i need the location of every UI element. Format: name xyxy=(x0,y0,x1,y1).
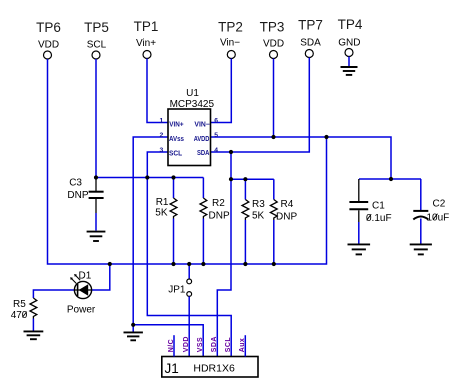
capacitor C3 xyxy=(67,178,103,231)
svg-text:DNP: DNP xyxy=(276,212,297,223)
svg-text:TP5: TP5 xyxy=(84,20,109,35)
wire SCL rail xyxy=(96,177,203,179)
node SCL rail / TP5 / C3 xyxy=(94,175,98,179)
svg-text:470: 470 xyxy=(11,310,28,321)
wire TP5/SCL down to SCL rail xyxy=(95,59,97,178)
svg-text:J1: J1 xyxy=(165,361,179,376)
svg-text:C1: C1 xyxy=(372,201,385,212)
svg-text:SCL: SCL xyxy=(169,151,183,158)
node VSS junction xyxy=(131,323,135,327)
node SDA rail / drop xyxy=(229,177,233,181)
svg-text:VDD: VDD xyxy=(38,40,59,51)
svg-text:R5: R5 xyxy=(13,299,26,310)
svg-text:HDR1X6: HDR1X6 xyxy=(193,363,235,375)
header J1 HDR1X6 xyxy=(162,357,258,378)
svg-text:VIN−: VIN− xyxy=(194,122,209,129)
svg-text:DNP: DNP xyxy=(209,211,230,222)
wire pin 2 AVss left and down to ground junction xyxy=(133,137,203,357)
test point TP2 xyxy=(218,20,243,59)
svg-text:TP7: TP7 xyxy=(298,18,323,33)
svg-text:TP1: TP1 xyxy=(134,19,159,34)
capacitor C1 xyxy=(349,179,391,244)
wire LED to R5 xyxy=(33,290,74,298)
svg-text:SDA: SDA xyxy=(211,336,218,352)
wire pin 4 SDA right to TP7 xyxy=(211,58,310,153)
svg-text:4: 4 xyxy=(214,147,218,154)
jumper JP1 xyxy=(168,264,191,357)
ground below C3 xyxy=(87,232,106,241)
node AVDD / TP3 xyxy=(271,135,275,139)
svg-text:VSS: VSS xyxy=(197,337,204,352)
node VDD rail / R4 xyxy=(272,262,276,266)
svg-text:R2: R2 xyxy=(212,198,225,209)
wire C1-C2 top rail xyxy=(359,178,421,180)
node AVDD / VDD riser xyxy=(324,135,328,139)
svg-text:R3: R3 xyxy=(252,199,265,210)
ground below R5 xyxy=(24,331,44,339)
svg-text:1: 1 xyxy=(160,117,164,124)
node SCL rail / pin3 drop xyxy=(145,175,149,179)
svg-text:N/C: N/C xyxy=(168,339,175,352)
wire pin 3 SCL left, down to J1 SCL xyxy=(147,152,231,357)
svg-text:Vin+: Vin+ xyxy=(136,38,156,49)
node SDA rail / R3 xyxy=(243,177,247,181)
node VDD rail / R2 xyxy=(201,262,205,266)
svg-text:MCP3425: MCP3425 xyxy=(170,99,215,110)
svg-text:D1: D1 xyxy=(79,271,92,282)
svg-text:TP6: TP6 xyxy=(36,20,61,35)
svg-text:AVDD: AVDD xyxy=(194,136,210,143)
svg-text:5K: 5K xyxy=(252,211,265,222)
LED D1 xyxy=(67,271,96,316)
svg-text:5K: 5K xyxy=(155,208,168,219)
test point TP3 xyxy=(260,20,285,59)
ground below C1 xyxy=(348,244,371,254)
node VDD rail / JP1 xyxy=(187,262,191,266)
ground below C2 xyxy=(410,244,432,254)
node C1C2 rail / feed xyxy=(389,177,393,181)
svg-text:2: 2 xyxy=(160,132,164,139)
wire R5 to ground xyxy=(32,319,34,331)
svg-text:SCL: SCL xyxy=(87,40,107,51)
svg-text:GND: GND xyxy=(338,38,360,49)
wire VDD: TP6 down and bottom VDD rail to AVDD riser xyxy=(48,59,327,264)
svg-text:VDD: VDD xyxy=(183,336,190,352)
svg-text:VDD: VDD xyxy=(263,39,284,50)
resistor R4 xyxy=(270,179,297,264)
svg-text:JP1: JP1 xyxy=(168,285,186,296)
capacitor C2 (polarized) xyxy=(413,179,449,244)
svg-text:TP2: TP2 xyxy=(218,20,243,35)
node SDA / drop xyxy=(229,150,233,154)
wire SDA drop to J1 SDA xyxy=(217,152,231,357)
wire D1 feed from VDD rail xyxy=(92,264,110,290)
svg-text:R1: R1 xyxy=(156,197,169,208)
IC U1 MCP3425 xyxy=(160,88,219,166)
svg-text:Power: Power xyxy=(67,305,96,316)
svg-text:DNP: DNP xyxy=(67,190,88,201)
test point TP4 xyxy=(338,17,363,57)
test point TP5 xyxy=(84,20,109,59)
test point TP7 xyxy=(298,18,323,58)
wire SDA mini rail to R3/R4 xyxy=(231,178,274,180)
svg-text:Vin−: Vin− xyxy=(220,38,240,49)
J1 pin Aux stub xyxy=(244,335,246,356)
svg-text:TP3: TP3 xyxy=(260,20,285,35)
svg-text:10uF: 10uF xyxy=(427,213,450,224)
svg-text:SCL: SCL xyxy=(225,337,232,353)
svg-text:R4: R4 xyxy=(281,199,294,210)
svg-text:SDA: SDA xyxy=(197,150,209,157)
test point TP6 xyxy=(36,20,61,59)
svg-text:SDA: SDA xyxy=(300,38,321,49)
wire pin 5 AVDD right to C1/C2 xyxy=(211,137,392,179)
svg-text:3: 3 xyxy=(160,147,164,154)
wire TP3/VDD down to AVDD line xyxy=(273,59,275,138)
svg-text:6: 6 xyxy=(214,117,218,124)
svg-text:0.1uF: 0.1uF xyxy=(366,213,392,224)
svg-text:C2: C2 xyxy=(433,199,446,210)
resistor R2 xyxy=(200,178,230,265)
node VDD rail / R3 xyxy=(243,262,247,266)
J1 pin N/C stub xyxy=(173,335,175,356)
ground below TP4 xyxy=(341,67,358,75)
node VDD rail / D1 xyxy=(108,262,112,266)
svg-text:C3: C3 xyxy=(69,178,82,189)
resistor R3 xyxy=(242,179,265,264)
wire pin 6 VIN- to TP2 xyxy=(211,59,232,123)
ground mid (VSS) xyxy=(124,325,143,341)
node SCL rail / R1 xyxy=(171,175,175,179)
wire TP4 to ground xyxy=(348,57,350,67)
resistor R1 xyxy=(155,178,177,265)
node VDD rail / R1 xyxy=(171,262,175,266)
test point TP1 xyxy=(134,19,159,59)
resistor R5 xyxy=(11,298,37,321)
svg-text:5: 5 xyxy=(214,132,218,139)
slashed zero marks xyxy=(22,214,437,318)
svg-text:TP4: TP4 xyxy=(338,17,363,32)
wire TP1/Vin+ down to pin 1 xyxy=(147,59,168,123)
svg-text:AVss: AVss xyxy=(169,136,184,143)
svg-text:U1: U1 xyxy=(186,88,199,99)
svg-text:VIN+: VIN+ xyxy=(169,122,183,129)
